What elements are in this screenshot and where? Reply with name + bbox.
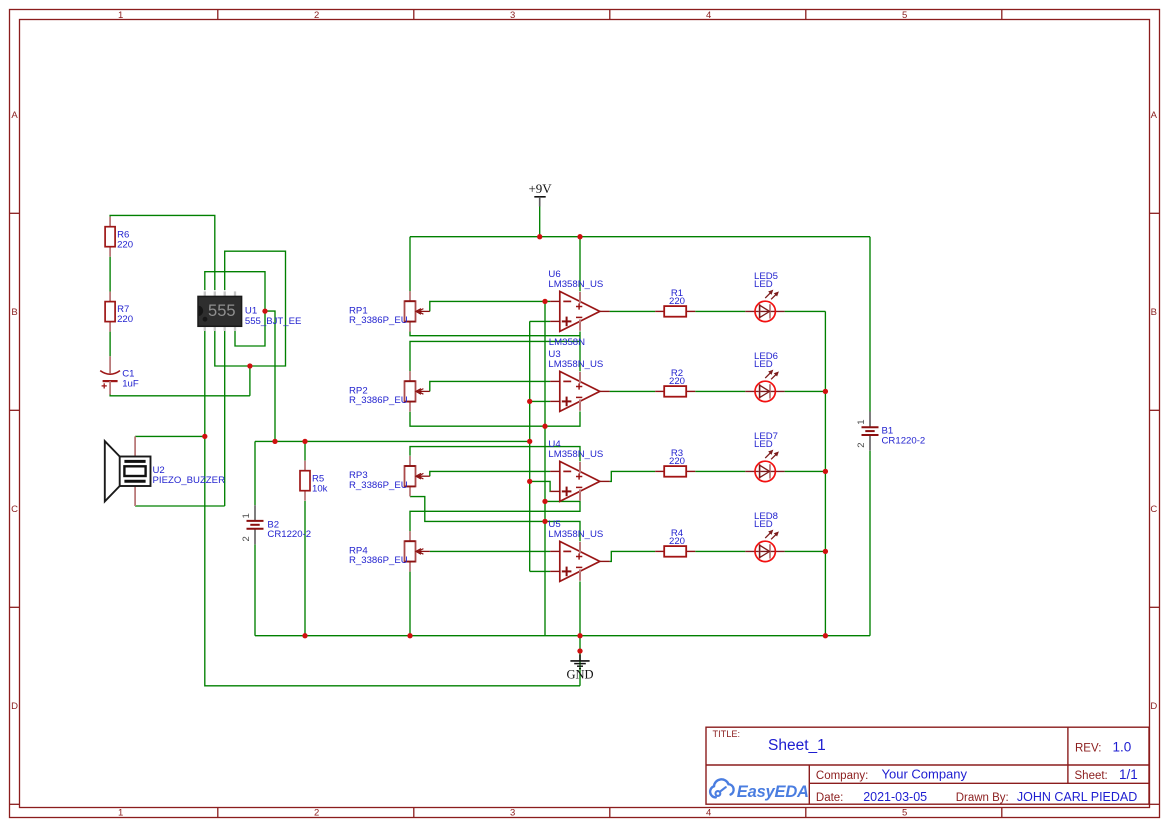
svg-text:LM358N_US: LM358N_US xyxy=(548,529,603,540)
wire 555 pin5 to gnd bus xyxy=(205,331,580,686)
wire RP3 bottom link xyxy=(410,497,580,542)
svg-text:2: 2 xyxy=(314,808,319,819)
svg-text:1.0: 1.0 xyxy=(1113,739,1132,754)
wire RP2 top link xyxy=(410,341,580,371)
svg-text:220: 220 xyxy=(117,314,133,325)
wire U4 out to R3 xyxy=(610,471,656,481)
svg-text:PIEZO_BUZZER: PIEZO_BUZZER xyxy=(153,475,226,486)
resistor R2 xyxy=(655,368,695,397)
svg-text:LED: LED xyxy=(754,279,773,290)
battery B1 xyxy=(856,412,925,451)
svg-text:Date:: Date: xyxy=(816,792,844,804)
LED LED6 xyxy=(745,351,784,401)
svg-text:LED: LED xyxy=(754,519,773,530)
svg-text:220: 220 xyxy=(669,456,685,467)
svg-text:EasyEDA: EasyEDA xyxy=(737,783,809,801)
svg-text:10k: 10k xyxy=(312,483,328,494)
resistor R5 xyxy=(300,461,328,501)
piezo buzzer U2 xyxy=(105,436,225,506)
wire R4 to LED8 xyxy=(695,550,745,552)
svg-text:220: 220 xyxy=(669,296,685,307)
svg-text:2021-03-05: 2021-03-05 xyxy=(863,790,927,804)
svg-text:1: 1 xyxy=(118,808,123,819)
svg-text:A: A xyxy=(1151,110,1158,121)
wire RP3 top / U4 V+ xyxy=(410,447,580,462)
battery B2 xyxy=(241,505,311,544)
LED LED8 xyxy=(745,511,784,561)
wire RP2 wiper to U3 - xyxy=(430,381,550,391)
svg-text:1uF: 1uF xyxy=(122,379,139,390)
svg-text:LM358N: LM358N xyxy=(549,337,585,348)
wire RP1 top feed xyxy=(409,237,411,292)
wire B2 bottom xyxy=(254,545,256,636)
resistor R4 xyxy=(655,528,695,557)
svg-text:R_3386P_EU: R_3386P_EU xyxy=(349,555,408,566)
wire mid bus y441 xyxy=(255,440,530,442)
svg-text:+9V: +9V xyxy=(528,181,552,196)
op-amp U6 xyxy=(548,269,609,331)
svg-text:2: 2 xyxy=(314,10,319,21)
wire GND drop xyxy=(579,581,581,685)
wire node366 branch xyxy=(249,366,251,396)
svg-text:LM358N_US: LM358N_US xyxy=(548,449,603,460)
svg-text:U1: U1 xyxy=(245,305,257,316)
svg-text:B: B xyxy=(1151,307,1157,318)
svg-text:1/1: 1/1 xyxy=(1119,767,1138,782)
op-amp U3 xyxy=(548,349,609,411)
wire buzzer top link xyxy=(135,435,205,437)
svg-text:5: 5 xyxy=(902,808,907,819)
svg-text:A: A xyxy=(11,110,18,121)
svg-text:4: 4 xyxy=(706,808,711,819)
title block xyxy=(706,727,1149,804)
potentiometer RP1 xyxy=(349,291,430,331)
svg-text:220: 220 xyxy=(669,376,685,387)
svg-text:R_3386P_EU: R_3386P_EU xyxy=(349,395,408,406)
resistor R6 xyxy=(105,217,133,257)
svg-text:LM358N_US: LM358N_US xyxy=(548,279,603,290)
wire rail U6-U3 xyxy=(579,331,581,371)
wire U6 out to R1 xyxy=(610,310,656,312)
svg-text:TITLE:: TITLE: xyxy=(713,729,741,739)
svg-text:555: 555 xyxy=(208,302,236,320)
wire U5 + input xyxy=(530,570,551,572)
svg-text:JOHN CARL PIEDAD: JOHN CARL PIEDAD xyxy=(1017,790,1137,804)
wire U6 + input xyxy=(530,320,551,322)
svg-text:3: 3 xyxy=(510,808,515,819)
junction dots (nodes) xyxy=(202,234,828,654)
resistor R3 xyxy=(655,448,695,477)
svg-text:Company:: Company: xyxy=(816,770,868,782)
svg-text:Sheet:: Sheet: xyxy=(1075,770,1108,782)
svg-text:R_3386P_EU: R_3386P_EU xyxy=(349,315,408,326)
wire R6-R7 xyxy=(109,257,111,292)
wire LED6 right xyxy=(785,390,826,392)
svg-text:C: C xyxy=(1150,504,1157,515)
IC U1 555 timer xyxy=(198,291,301,331)
wire +9V top bus xyxy=(410,236,870,238)
svg-text:220: 220 xyxy=(669,536,685,547)
wire noninv vertical x530 xyxy=(529,321,531,571)
svg-text:C: C xyxy=(11,504,18,515)
wire 555 pin6-pin3 loop xyxy=(215,251,286,366)
svg-text:D: D xyxy=(1150,701,1157,712)
svg-text:Your Company: Your Company xyxy=(882,766,968,781)
wire U5 out to R4 xyxy=(610,551,656,561)
svg-text:D: D xyxy=(11,701,18,712)
wire bottom ground bus xyxy=(255,635,870,637)
wire +9V stub xyxy=(539,207,541,237)
wire U3 + input xyxy=(530,400,551,402)
wire 555 pin7 drop xyxy=(224,331,226,506)
ground GND xyxy=(566,655,593,682)
wire LED8 right xyxy=(785,550,826,552)
wire R3 to LED7 xyxy=(695,470,745,472)
op-amp U4 xyxy=(548,439,609,501)
wire 555 pin1-pin8 loop xyxy=(205,272,265,346)
wire B2 top xyxy=(254,441,256,505)
svg-text:LED: LED xyxy=(754,439,773,450)
wire R5 bottom xyxy=(304,501,306,636)
potentiometer RP2 xyxy=(349,371,430,411)
svg-text:GND: GND xyxy=(566,668,593,682)
wire RP2 bottom / U3 V- xyxy=(410,411,580,426)
wire R6 to 555 pin2 xyxy=(110,215,215,290)
wire U6 V+ rail xyxy=(579,237,581,292)
wire LED7 right xyxy=(785,470,826,472)
svg-text:5: 5 xyxy=(902,10,907,21)
svg-text:1: 1 xyxy=(856,419,867,424)
svg-text:REV:: REV: xyxy=(1075,742,1101,754)
svg-text:R_3386P_EU: R_3386P_EU xyxy=(349,480,408,491)
EasyEDA logo xyxy=(710,779,809,801)
svg-text:1: 1 xyxy=(118,10,123,21)
op-amp U5 xyxy=(548,519,609,581)
svg-text:555_BJT_EE: 555_BJT_EE xyxy=(245,316,302,327)
wire RP4 bottom xyxy=(409,572,411,636)
wire B1 bottom xyxy=(869,451,871,636)
wire U4 + input xyxy=(530,481,551,491)
wire U3 out to R2 xyxy=(610,390,656,392)
svg-text:LED: LED xyxy=(754,359,773,370)
LED LED5 xyxy=(745,271,784,321)
svg-text:4: 4 xyxy=(706,10,711,21)
svg-text:B: B xyxy=(11,307,17,318)
svg-text:3: 3 xyxy=(510,10,515,21)
wire node311 branch xyxy=(265,311,275,441)
resistor R7 xyxy=(105,292,133,332)
resistor R1 xyxy=(655,288,695,317)
svg-text:2: 2 xyxy=(241,536,252,541)
wire RP4 top / U4 V- xyxy=(410,501,580,531)
wire R5 top xyxy=(304,441,306,460)
wire RP3 wiper to U4 - xyxy=(430,471,550,476)
wire buzzer bottom link xyxy=(135,505,225,507)
wire R7-C1 xyxy=(109,332,111,357)
wire B1 top xyxy=(869,237,871,412)
wire inv vertical x545 xyxy=(544,301,546,635)
potentiometer RP3 xyxy=(349,456,430,496)
potentiometer RP4 xyxy=(349,531,430,571)
wire LED5 right xyxy=(785,310,826,312)
svg-text:1: 1 xyxy=(241,513,252,518)
svg-text:CR1220-2: CR1220-2 xyxy=(267,529,311,540)
wire C1 bottom xyxy=(110,394,250,396)
wire RP1 wiper to U6 - xyxy=(430,301,550,311)
wire LED bus x825 xyxy=(824,311,826,635)
svg-text:220: 220 xyxy=(117,239,133,250)
svg-text:Sheet_1: Sheet_1 xyxy=(768,737,826,754)
wire RP1 bottom link xyxy=(410,332,580,336)
svg-text:LM358N_US: LM358N_US xyxy=(548,359,603,370)
wire RP4 wiper to U5 - xyxy=(430,550,550,552)
wire R1 to LED5 xyxy=(695,310,745,312)
svg-text:Drawn By:: Drawn By: xyxy=(956,792,1009,804)
power flag +9V xyxy=(528,181,552,207)
LED LED7 xyxy=(745,431,784,481)
svg-text:CR1220-2: CR1220-2 xyxy=(882,436,926,447)
svg-text:2: 2 xyxy=(856,442,867,447)
capacitor C1 xyxy=(100,356,139,394)
wire R2 to LED6 xyxy=(695,390,745,392)
